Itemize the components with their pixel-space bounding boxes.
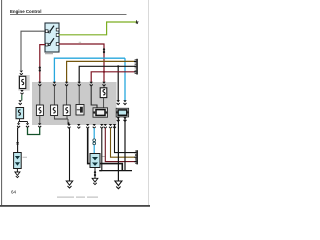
wire brown lower to connector (111, 128, 135, 157)
inline connector ticks (16, 142, 19, 144)
label tick above red wire (79, 41, 81, 44)
wire below S1 split (19, 119, 28, 123)
svg-text:Engine Control: Engine Control (10, 9, 41, 14)
filter label tick (23, 156, 27, 159)
junction black bus (117, 65, 119, 67)
wire black to ground A (69, 128, 71, 181)
wire gray from relay to fuse F1 (21, 31, 45, 70)
relay pin left lower (45, 43, 48, 46)
wire dark red from relay left down (40, 45, 45, 82)
connector S1 right pin (26, 123, 29, 127)
wire black to ground bar (101, 128, 103, 171)
connector bar upper (134, 59, 138, 75)
noise filter box 2 (90, 154, 100, 168)
wire brown bus (67, 61, 135, 82)
switch box S1 (cyan) (16, 108, 24, 119)
noise filter box (bottom left) (14, 153, 22, 169)
in-band relay R (93, 108, 108, 117)
in-band wires (40, 86, 104, 105)
connector S1 left pin (17, 123, 20, 127)
wire thick black (88, 128, 123, 170)
junction red (103, 71, 105, 73)
svg-text:64: 64 (11, 190, 17, 195)
wire filter2 to ground B (94, 168, 96, 179)
in-band fuse F4 (100, 88, 107, 98)
connector under band green (38, 123, 41, 127)
wire dark red lower bus (91, 72, 134, 82)
wire resistor left pin to ground C (117, 117, 119, 181)
wire dark green U link (28, 128, 40, 135)
wire black drop to resistor box (117, 66, 119, 100)
wire black to noise filter (17, 128, 19, 153)
in-band fuse b3 (63, 105, 70, 116)
page left border (1, 0, 3, 206)
joint under filter (94, 171, 96, 176)
wire cyan drop to resistor box (124, 58, 126, 100)
pins above resistor box (117, 100, 120, 104)
joint on cyan (93, 139, 96, 142)
wire cyan bus (54, 58, 125, 82)
in-band wire F4 to relay (103, 98, 105, 108)
ground A (66, 181, 72, 188)
junction dot under band (68, 122, 70, 124)
connector bar lower (134, 150, 138, 164)
wire resistor right pin elbow (124, 117, 126, 171)
relay box EFI main (45, 23, 59, 52)
relay pin left (45, 30, 48, 33)
ground C (115, 181, 122, 189)
page right edge line (148, 0, 150, 205)
in-band fuse b2 (51, 105, 58, 116)
green end tick (136, 20, 139, 24)
relay switch 1 (48, 31, 50, 33)
ground D under filter (16, 169, 18, 173)
fuse F1 label band (18, 75, 29, 91)
junction block band (32, 82, 117, 125)
wire bar left elbow (99, 170, 102, 172)
in-band fuse b1 (36, 105, 43, 116)
title underline (10, 13, 127, 15)
in-band link under fuses (40, 116, 68, 125)
wire maroon lower to connector (105, 128, 134, 162)
band bottom pins (67, 124, 70, 128)
band top pins (38, 82, 41, 86)
relay label (45, 53, 53, 54)
wire black lower to connector (115, 124, 135, 153)
wire black bus (79, 66, 134, 82)
fuse F1 (19, 76, 25, 88)
ground C bar (99, 170, 132, 172)
wire dark green short (21, 95, 23, 101)
connector above S-box (19, 100, 22, 104)
joint on red left (39, 66, 41, 71)
connector above F1 (20, 71, 23, 75)
footer caption (57, 197, 74, 198)
wire dark red from relay right (59, 44, 104, 82)
relay switch 2 (48, 44, 50, 46)
wire cyan to filter (93, 128, 95, 154)
connector below F1 (20, 90, 23, 94)
joint on red right (103, 48, 105, 53)
ground B (92, 178, 98, 184)
in-band box4 (76, 105, 84, 116)
relay pin squares right (56, 28, 59, 31)
wire green to right (59, 22, 137, 35)
resistor box right of band (116, 108, 128, 117)
filter2 label tick (101, 155, 105, 158)
page bottom border (0, 205, 150, 207)
